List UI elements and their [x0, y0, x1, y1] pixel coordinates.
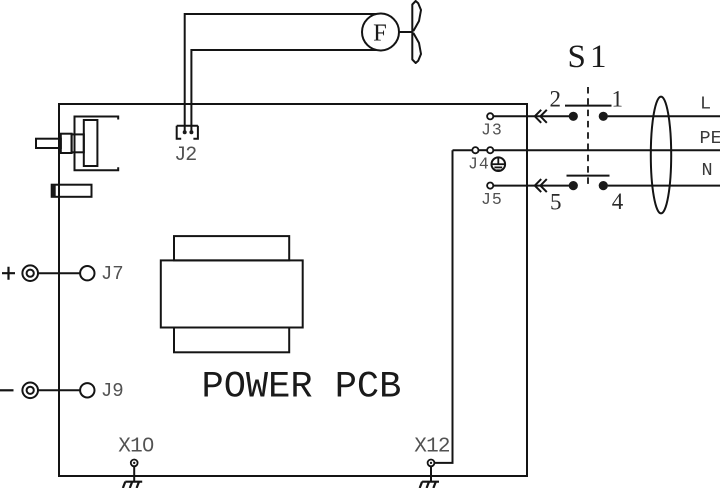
- chassis ground: [420, 482, 439, 488]
- svg-text:J5: J5: [481, 190, 503, 209]
- wire PE to X12: [435, 150, 453, 463]
- wire J3 to switch: [493, 115, 569, 117]
- svg-text:X10: X10: [118, 435, 154, 458]
- terminal X10: [131, 460, 138, 482]
- connector J9: [80, 383, 94, 397]
- wire: [38, 272, 80, 274]
- svg-text:1: 1: [612, 86, 624, 111]
- dashed line S1: [587, 87, 589, 189]
- cable entry ellipse: [651, 97, 671, 214]
- svg-text:5: 5: [550, 189, 562, 214]
- wire: [38, 389, 80, 391]
- connector J5: [487, 183, 493, 189]
- svg-text:N: N: [702, 160, 713, 181]
- power PCB outline: [59, 104, 527, 476]
- svg-text:POWER PCB: POWER PCB: [202, 366, 402, 408]
- svg-text:2: 2: [550, 86, 562, 111]
- minus terminal: [0, 383, 38, 399]
- fan motor F: [362, 1, 421, 63]
- wire fan top: [185, 14, 378, 133]
- switch shaft assembly: [36, 117, 118, 171]
- svg-text:PE: PE: [700, 128, 720, 149]
- wire PE line: [493, 149, 720, 151]
- svg-text:J3: J3: [481, 120, 503, 139]
- connector J3: [487, 113, 493, 119]
- svg-text:4: 4: [612, 189, 624, 214]
- transformer: [161, 236, 303, 352]
- earth symbol: [492, 157, 506, 171]
- svg-text:S: S: [568, 39, 586, 75]
- svg-text:J9: J9: [101, 380, 124, 402]
- wire J4 mid: [479, 149, 488, 151]
- connector J2: [177, 126, 198, 139]
- terminal X12: [428, 460, 435, 482]
- svg-text:J2: J2: [174, 144, 196, 167]
- connector J4: [472, 147, 493, 153]
- svg-text:L: L: [700, 94, 711, 115]
- switch S1 bottom pole: [567, 176, 610, 191]
- switch S1 top pole: [565, 106, 612, 121]
- plug chevrons top: [535, 110, 547, 123]
- svg-text:J4: J4: [468, 155, 490, 174]
- plug chevrons bottom: [535, 179, 547, 192]
- chassis ground: [123, 482, 142, 488]
- connector J7: [80, 266, 94, 280]
- component below switch: [52, 185, 92, 197]
- wire L line: [608, 115, 720, 117]
- wire N line: [608, 185, 720, 187]
- svg-text:X12: X12: [414, 435, 450, 458]
- svg-text:F: F: [373, 19, 387, 46]
- plus terminal: [2, 265, 38, 281]
- wire J4 left: [453, 149, 473, 151]
- svg-text:J7: J7: [101, 263, 124, 285]
- wire J5 to switch: [493, 185, 569, 187]
- wire fan bottom: [191, 50, 376, 133]
- svg-text:1: 1: [590, 39, 607, 75]
